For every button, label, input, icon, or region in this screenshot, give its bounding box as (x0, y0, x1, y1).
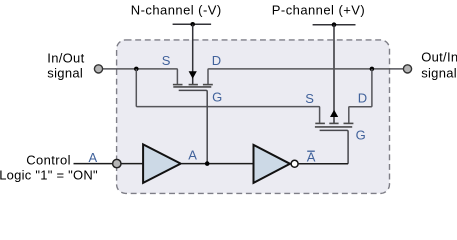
transistor Q2 P-channel MOSFET (315, 123, 354, 127)
pin label D of Q1 (212, 53, 221, 68)
wire In/Out junction down and across to P source (136, 69, 319, 123)
wire node A-bar: bubble to P gate (298, 163, 348, 165)
label In/Out signal (47, 51, 84, 81)
pin label S of Q2 (305, 91, 314, 106)
label N-channel (-V) (131, 2, 222, 17)
label P-channel (+V) (272, 2, 365, 17)
label Control Logic "1" = "ON" (0, 153, 98, 183)
In/Out signal terminal (94, 65, 102, 73)
svg-text:S: S (305, 91, 314, 106)
node label A after inverter U1 (188, 147, 197, 162)
wire control terminal to inverter U1 (121, 163, 142, 165)
node label A at control input (89, 150, 98, 165)
transistor Q1 N-channel MOSFET (173, 85, 213, 87)
label Out/In signal (421, 50, 457, 81)
svg-text:S: S (162, 53, 171, 68)
N-channel body arrow (points down) (189, 71, 197, 79)
svg-text:N-channel (-V): N-channel (-V) (131, 2, 222, 17)
wire P drain up to Out/In junction (349, 69, 372, 123)
junction on P rail (332, 22, 337, 27)
svg-text:Control: Control (26, 153, 71, 168)
wire P gate bar and lead down to node A-bar (320, 130, 349, 163)
svg-text:signal: signal (421, 66, 457, 81)
svg-text:D: D (212, 53, 221, 68)
wire N gate bar and lead down to node A (179, 90, 208, 163)
pin label S of Q1 (162, 53, 171, 68)
switch body dashed box (117, 40, 390, 194)
wire control input (74, 163, 113, 165)
Out/In signal terminal (403, 65, 411, 73)
pin label G of Q2 (356, 128, 366, 143)
N-channel -V supply rail (173, 23, 212, 25)
pin label D of Q2 (358, 91, 367, 106)
svg-text:In/Out: In/Out (47, 51, 84, 66)
svg-text:D: D (358, 91, 367, 106)
node label A-bar after inverter U2 (307, 150, 316, 165)
svg-text:signal: signal (47, 66, 83, 81)
inverter U2 output bubble (291, 160, 298, 167)
wire node A: inverter U1 output to inverter U2 (182, 163, 253, 165)
node In/Out junction (134, 67, 139, 72)
svg-text:G: G (356, 128, 366, 143)
wire In/Out signal to N source (103, 69, 178, 85)
junction on N rail (190, 22, 195, 27)
node Out/In junction (370, 67, 375, 72)
inverter U1 (143, 144, 181, 183)
P-channel body arrow (points up) (330, 110, 338, 117)
svg-text:G: G (212, 89, 222, 104)
wire N drain up and across to Out/In terminal (208, 69, 403, 85)
wire P body lead (333, 25, 335, 123)
svg-text:Out/In: Out/In (421, 50, 457, 65)
node A junction (205, 161, 210, 166)
P-channel +V supply rail (313, 24, 356, 26)
control terminal (113, 159, 121, 167)
inverter U2 (254, 145, 291, 183)
svg-text:P-channel (+V): P-channel (+V) (272, 2, 365, 17)
pin label G of Q1 (212, 89, 222, 104)
svg-text:A: A (307, 150, 316, 165)
svg-text:A: A (89, 150, 98, 165)
svg-text:Logic "1" = "ON": Logic "1" = "ON" (0, 168, 98, 183)
wire N body lead (192, 24, 194, 84)
svg-text:A: A (188, 147, 197, 162)
